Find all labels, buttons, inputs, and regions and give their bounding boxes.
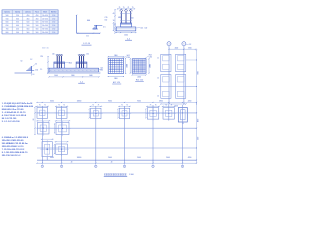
- svg-text:M24·8.8S·2.5m·C15·80: M24·8.8S·2.5m·C15·80: [2, 108, 24, 111]
- detail A haunch top ledge line: [94, 24, 102, 26]
- svg-text:75: 75: [126, 105, 128, 107]
- svg-text:1:50: 1:50: [52, 15, 55, 17]
- detail D strip footing slab: [49, 68, 99, 72]
- row2 upper dims: [36, 120, 50, 122]
- svg-text:50: 50: [35, 63, 37, 65]
- svg-text:75: 75: [98, 105, 100, 107]
- svg-text:1:50: 1:50: [52, 25, 55, 27]
- detail D bolt group 1: [56, 56, 58, 68]
- svg-text:30×500: 30×500: [42, 21, 48, 24]
- axis stub below R1: [46, 157, 48, 160]
- mini plan lower footing right: [176, 75, 186, 99]
- svg-text:4000: 4000: [175, 48, 179, 50]
- svg-text:350: 350: [16, 22, 19, 24]
- pad plan E bottom dimension: [108, 76, 123, 78]
- detail D bottom dimension line: [49, 76, 99, 78]
- svg-text:800: 800: [6, 32, 9, 34]
- svg-text:4200: 4200: [188, 157, 192, 159]
- svg-text:40: 40: [71, 162, 73, 164]
- detail B anchor bolts with hooked tops: [120, 11, 122, 23]
- svg-text:2. C30/HRB400·Q235B·M24·8.8S: 2. C30/HRB400·Q235B·M24·8.8S: [2, 105, 34, 108]
- detail C hatched triangle: [27, 66, 31, 70]
- mini plan lower footing left: [161, 75, 171, 99]
- svg-text:9000: 9000: [137, 101, 141, 103]
- table: anchor-bolt schedule, frame: [2, 10, 58, 34]
- pad plan F bottom dimension: [132, 74, 146, 76]
- svg-text:C30: C30: [127, 57, 130, 59]
- row3 upper dims: [41, 138, 54, 140]
- detail D right leader annotation: [99, 68, 103, 71]
- detail A right vertical dim line: [112, 23, 114, 31]
- svg-text:3. -0.300=85.00·J1·J2·C0: 3. -0.300=85.00·J1·J2·C0: [2, 112, 26, 114]
- svg-text:36×560: 36×560: [42, 31, 48, 34]
- main plan vertical axis lines: [41, 106, 43, 163]
- svg-text:C15: C15: [105, 17, 108, 19]
- row2 pad Q1: [38, 122, 50, 134]
- row2 horizontal axis line: [37, 127, 197, 129]
- detail B left vertical dim line: [114, 10, 116, 33]
- detail A haunch vertical edge: [96, 25, 98, 29]
- detail A haunch base line: [93, 28, 98, 30]
- svg-text:1400: 1400: [54, 75, 58, 77]
- mini plan top dimension: [169, 48, 196, 50]
- grid bubble axis A: [167, 42, 171, 46]
- svg-text:700: 700: [6, 29, 9, 31]
- svg-text:L50: L50: [131, 17, 134, 19]
- row1 pad P5: [147, 108, 159, 119]
- detail A haunch hatched triangle: [92, 25, 96, 29]
- svg-text:600: 600: [6, 22, 9, 24]
- detail B leader annotations right: [136, 27, 140, 29]
- svg-text:450: 450: [26, 18, 29, 20]
- svg-text:500: 500: [36, 25, 39, 27]
- svg-text:150: 150: [35, 70, 38, 72]
- svg-text:560: 560: [26, 29, 29, 31]
- svg-text:9000: 9000: [108, 101, 112, 103]
- svg-text:75: 75: [39, 105, 41, 107]
- detail D bolt group 2: [78, 56, 80, 68]
- svg-text:600: 600: [87, 20, 90, 22]
- detail A tick top of wall: [76, 15, 77, 16]
- svg-text:75: 75: [155, 105, 157, 107]
- svg-text:75: 75: [58, 105, 60, 107]
- axis line pad P6 short: [168, 105, 170, 121]
- pad plan E top leader: [123, 56, 127, 58]
- svg-text:C15: C15: [140, 28, 143, 30]
- svg-text:10800: 10800: [77, 101, 82, 103]
- svg-text:75: 75: [44, 105, 46, 107]
- svg-text:100: 100: [32, 74, 35, 76]
- svg-text:1:50: 1:50: [52, 29, 55, 31]
- svg-text:1800: 1800: [126, 64, 128, 68]
- svg-text:75: 75: [123, 7, 125, 9]
- svg-text:M24: M24: [118, 17, 121, 19]
- svg-text:1800: 1800: [114, 55, 118, 57]
- svg-text:500: 500: [6, 15, 9, 17]
- main plan left vertical dim: [34, 107, 36, 135]
- svg-text:650: 650: [6, 25, 9, 27]
- pad plan F left dimension marks: [129, 59, 131, 73]
- pad plan F top leader: [145, 56, 149, 59]
- row1 pad P2: [56, 108, 67, 119]
- svg-text:600·1:10: 600·1:10: [42, 48, 49, 50]
- main plan top dimension line: [37, 101, 197, 103]
- svg-text:8. 1:100·2016·M24·8.8S·C0: 8. 1:100·2016·M24·8.8S·C0: [2, 151, 28, 154]
- svg-text:5: 5: [183, 44, 184, 46]
- svg-text:1:50: 1:50: [52, 32, 55, 34]
- pad plan E right dimension line: [125, 58, 127, 73]
- svg-text:500: 500: [26, 22, 29, 24]
- svg-text:600: 600: [86, 36, 89, 38]
- pad plan E rebar grid: [109, 59, 111, 73]
- svg-text:500: 500: [36, 22, 39, 24]
- mini plan right vertical dimension: [196, 50, 198, 104]
- detail A outline: vertical wall line: [76, 15, 78, 33]
- svg-text:J2: J2: [157, 78, 159, 80]
- row1 pad P3: [91, 108, 101, 118]
- grid bubbles bottom: [41, 163, 43, 165]
- svg-text:75: 75: [132, 7, 134, 9]
- svg-text:450: 450: [16, 29, 19, 31]
- svg-text:450: 450: [36, 15, 39, 17]
- detail D pedestal 2: [76, 62, 87, 68]
- row1 horizontal axis line: [37, 112, 197, 114]
- detail C ledge top line: [26, 69, 34, 71]
- detail B top dimension line: [118, 8, 135, 10]
- svg-text:150: 150: [105, 19, 108, 21]
- svg-text:300: 300: [16, 18, 19, 20]
- svg-text:560: 560: [36, 29, 39, 31]
- svg-text:560: 560: [36, 32, 39, 34]
- svg-text:9000: 9000: [166, 157, 170, 159]
- detail C ground step down: [30, 73, 32, 76]
- mini plan leader line right upper: [186, 59, 197, 61]
- pad left edge dim ticks: [88, 109, 90, 118]
- svg-text:500: 500: [16, 32, 19, 34]
- svg-text:24×450: 24×450: [42, 17, 48, 20]
- svg-text:450: 450: [36, 18, 39, 20]
- row3 tall pad R1: [42, 142, 52, 157]
- svg-text:1960: 1960: [71, 75, 75, 77]
- svg-text:550: 550: [6, 18, 9, 20]
- svg-text:5. J-1·J-2·1:20·100: 5. J-1·J-2·1:20·100: [2, 121, 21, 123]
- detail D bolt group 1 dimension: [56, 54, 64, 56]
- svg-text:7. 35·100×100·C15·J2·2: 7. 35·100×100·C15·J2·2: [2, 148, 25, 151]
- svg-text:M24: M24: [43, 12, 47, 14]
- svg-text:60: 60: [33, 119, 35, 121]
- svg-text:250·C30·100·25·1:2: 250·C30·100·25·1:2: [2, 155, 21, 157]
- svg-text:h(mm): h(mm): [15, 12, 21, 14]
- detail B tie lines across bolts: [120, 12, 132, 14]
- drawing title underline: [104, 175, 127, 177]
- svg-text:150: 150: [86, 53, 89, 55]
- svg-text:d(mm): d(mm): [25, 12, 31, 14]
- svg-text:24×450: 24×450: [42, 14, 48, 17]
- svg-text:250: 250: [16, 15, 19, 17]
- detail C leader mark: [33, 65, 36, 67]
- svg-text:2000: 2000: [137, 76, 141, 78]
- svg-text:2500·250·25000·1:2·10: 2500·250·25000·1:2·10: [2, 146, 24, 148]
- detail C ground line: [15, 72, 32, 74]
- pad plan F outer square: [132, 59, 146, 73]
- main plan right vertical dim line: [196, 104, 198, 163]
- svg-text:50: 50: [21, 61, 23, 63]
- svg-text:1:50: 1:50: [52, 22, 55, 24]
- svg-text:40: 40: [111, 162, 113, 164]
- svg-text:1. 25.0(85.30)·6.0/27.5kPa·fk=: 1. 25.0(85.30)·6.0/27.5kPa·fk=18: [2, 103, 33, 105]
- svg-text:C30: C30: [149, 57, 152, 59]
- main plan bottom dimension line: [37, 162, 197, 164]
- svg-text:HJ-1: HJ-1: [35, 12, 39, 14]
- detail C haunch vertical edge: [31, 66, 33, 73]
- svg-text:1:50: 1:50: [52, 18, 55, 20]
- svg-text:C20: C20: [40, 56, 43, 58]
- svg-text:9000: 9000: [108, 157, 112, 159]
- axis line from bubble B: [183, 46, 185, 104]
- svg-text:350×350·2·M30·250·80: 350×350·2·M30·250·80: [2, 139, 24, 142]
- svg-text:500: 500: [26, 25, 29, 27]
- svg-text:10: 10: [113, 20, 115, 22]
- svg-text:6000: 6000: [50, 157, 54, 159]
- svg-text:400: 400: [16, 25, 19, 27]
- svg-text:36×560: 36×560: [42, 28, 48, 31]
- svg-text:2-2: 2-2: [189, 44, 192, 46]
- detail B base slab: [116, 27, 136, 31]
- detail D left vertical dim line: [47, 57, 49, 74]
- svg-text:75: 75: [165, 105, 167, 107]
- svg-text:75: 75: [171, 105, 173, 107]
- grid bubble axis B: [182, 42, 186, 46]
- svg-text:7500: 7500: [197, 137, 199, 141]
- table header row fill: [2, 10, 58, 14]
- svg-text:75: 75: [63, 105, 65, 107]
- svg-text:1:100: 1:100: [129, 174, 134, 176]
- svg-text:1000: 1000: [124, 34, 128, 36]
- detail A outline: floor line: [77, 32, 100, 34]
- detail D bolt group 2 dimension: [78, 54, 86, 56]
- detail D pedestal 1: [54, 62, 65, 68]
- svg-text:4200: 4200: [188, 101, 192, 103]
- svg-text:1800: 1800: [114, 78, 118, 80]
- svg-text:3300: 3300: [188, 48, 192, 50]
- axis line from bubble A: [168, 46, 170, 104]
- svg-text:2:1: 2:1: [40, 69, 42, 71]
- table grid lines: [2, 9, 58, 11]
- pad plan F right dimension line: [148, 59, 150, 73]
- svg-text:150: 150: [52, 53, 55, 55]
- svg-text:450: 450: [26, 15, 29, 17]
- row1 pad P6: [163, 108, 175, 119]
- svg-text:2000: 2000: [150, 64, 152, 68]
- mini plan upper footing right: [176, 54, 186, 71]
- row1 pad P4: [119, 108, 129, 118]
- table last column tint: [49, 13, 58, 34]
- svg-text:J1: J1: [157, 58, 159, 60]
- row3 pad R2: [56, 144, 68, 154]
- detail B pedestal: [121, 23, 132, 27]
- row1 tall pad P7: [178, 108, 187, 123]
- svg-text:100: 100: [145, 28, 148, 30]
- svg-text:75: 75: [119, 7, 121, 9]
- svg-text:4: 4: [169, 44, 170, 46]
- mini plan bottom dimension line: [161, 103, 186, 105]
- detail D leader between pedestals: [64, 62, 69, 64]
- svg-text:40: 40: [113, 13, 115, 15]
- svg-text:75: 75: [92, 105, 94, 107]
- svg-text:6. 2000kN-m·1.5·M30·500·8: 6. 2000kN-m·1.5·M30·500·8: [2, 137, 29, 139]
- svg-text:EEEEEEEEEEEEE: EEEEEEEEEEEEE: [104, 172, 127, 176]
- svg-text:4800: 4800: [159, 101, 163, 103]
- svg-text:560: 560: [26, 32, 29, 34]
- detail A title underline: [82, 44, 92, 46]
- pad plan E outer square: [108, 58, 123, 73]
- svg-text:M24: M24: [69, 62, 72, 64]
- detail D slab hatch dots: [51, 69, 52, 72]
- mini plan mid horizontal axis: [159, 86, 197, 88]
- svg-text:2:1: 2:1: [103, 27, 106, 29]
- svg-text:10800: 10800: [77, 157, 82, 159]
- svg-text:9000: 9000: [197, 71, 199, 75]
- svg-text:4. 100·C15·80·1:2.0·250·8: 4. 100·C15·80·1:2.0·250·8: [2, 114, 27, 117]
- svg-text:1640: 1640: [89, 75, 93, 77]
- svg-text:1:2: 1:2: [30, 59, 32, 61]
- svg-text:J2: J2: [157, 96, 159, 98]
- svg-text:80·1:2·C15·100: 80·1:2·C15·100: [2, 118, 17, 120]
- svg-text:100: 100: [100, 70, 103, 72]
- svg-text:500·HRB400·C35·25·80·2m: 500·HRB400·C35·25·80·2m: [2, 142, 28, 145]
- svg-text:M2450: M2450: [51, 12, 57, 14]
- main plan bottom edge line: [37, 159, 197, 161]
- svg-text:b(mm): b(mm): [4, 12, 10, 14]
- svg-text:6000: 6000: [50, 101, 54, 103]
- svg-text:C15: C15: [100, 67, 103, 69]
- detail A floor dimension ticks: [77, 33, 78, 34]
- svg-text:75: 75: [121, 105, 123, 107]
- row1 pad P1: [37, 108, 48, 119]
- detail D bedding layer: [48, 72, 100, 74]
- svg-text:9000: 9000: [137, 157, 141, 159]
- pad plan E top dimension: [108, 56, 123, 58]
- svg-text:6000: 6000: [197, 119, 199, 123]
- row2 pad Q2: [56, 122, 69, 134]
- pad plan F rebar grid: [133, 59, 135, 72]
- svg-text:30×500: 30×500: [42, 24, 48, 27]
- svg-text:75: 75: [127, 7, 129, 9]
- main plan per-pad upper dims: [36, 105, 49, 107]
- mini plan upper footing left: [161, 54, 171, 71]
- detail B bottom dimension line: [116, 32, 136, 34]
- row3 horizontal axis line: [37, 147, 197, 149]
- svg-text:75: 75: [150, 105, 152, 107]
